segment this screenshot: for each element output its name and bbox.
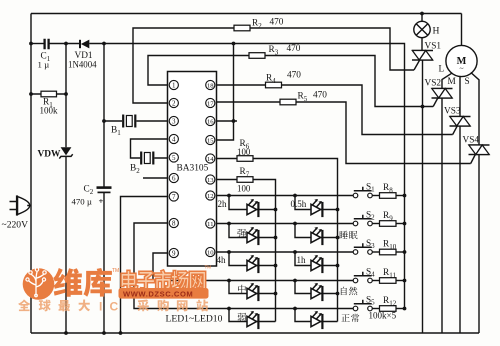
label 睡眠 [340, 231, 348, 239]
LED row 2 right drop [295, 224, 338, 238]
svg-text:3: 3 [172, 117, 176, 125]
LED9 [247, 316, 257, 326]
svg-text:13: 13 [207, 177, 214, 184]
wire pin6 stub [143, 177, 168, 179]
svg-text:15: 15 [207, 137, 214, 144]
resistor R7 100 [217, 179, 238, 181]
switch S5 [353, 306, 358, 311]
capacitor C2 470µ [97, 186, 112, 189]
label 自然 [341, 287, 347, 295]
LED4 [311, 232, 321, 242]
svg-text:H: H [433, 26, 440, 37]
zener diode VDW [61, 147, 72, 155]
svg-text:0.5h: 0.5h [291, 199, 307, 209]
wire motor feed from top border [461, 14, 463, 46]
svg-text:BA3105: BA3105 [177, 164, 209, 174]
svg-text:1h: 1h [297, 255, 307, 265]
node bottom junctions [64, 331, 68, 335]
svg-text:9: 9 [172, 249, 176, 257]
svg-text:470: 470 [287, 44, 301, 54]
LED1 [247, 204, 257, 214]
svg-text:VDW: VDW [38, 150, 62, 160]
label 中 [238, 285, 246, 294]
resistor R12 [372, 308, 379, 310]
svg-text:100k: 100k [40, 106, 59, 116]
svg-text:470: 470 [287, 71, 301, 81]
IC pin numbers 18-10 [206, 80, 215, 89]
svg-text:1N4004: 1N4004 [68, 60, 97, 70]
resistor R4 470 [217, 84, 266, 86]
ceramic resonator B1 [104, 120, 168, 122]
switch S1 [353, 193, 358, 198]
svg-text:11: 11 [207, 221, 214, 228]
svg-text:VS3: VS3 [444, 107, 461, 117]
svg-text:LED1~LED10: LED1~LED10 [166, 314, 223, 325]
LED row 2 left drop [229, 224, 276, 238]
svg-text:12: 12 [207, 193, 214, 200]
LED row 1 right drop [295, 196, 338, 210]
motor M (3-speed) [446, 45, 477, 76]
svg-text:10: 10 [207, 249, 214, 256]
wire pin9 to S4 bus [153, 253, 353, 281]
LED row 4 left drop [229, 281, 276, 294]
wire pin12 S1 bus [217, 195, 354, 197]
wire VS2 cathode down [441, 98, 443, 333]
svg-text:1 µ: 1 µ [38, 60, 50, 70]
wire motor S terminal [471, 73, 479, 146]
svg-text:+: + [99, 196, 104, 206]
svg-text:5: 5 [172, 154, 176, 162]
LED5 [247, 260, 257, 270]
LED row 5 left drop [229, 309, 276, 322]
wire pin1 to R3 line [148, 56, 249, 86]
svg-text:TM: TM [112, 268, 119, 274]
LED row 3 right drop [295, 252, 338, 266]
wire pin11 S2 bus [217, 223, 354, 225]
LED row 5 right drop [295, 309, 338, 322]
wire motor M terminal [459, 76, 461, 116]
svg-text:~220V: ~220V [2, 220, 29, 231]
IC pin numbers 1-9 [169, 80, 178, 89]
op-amp U1 BA3105 IC body [168, 72, 217, 267]
wire VS1 cathode down [422, 60, 424, 333]
LED10 [311, 316, 321, 326]
svg-text:16: 16 [207, 118, 214, 125]
svg-text:VS4: VS4 [463, 136, 480, 146]
svg-text:470 µ: 470 µ [72, 197, 92, 207]
svg-text:7: 7 [172, 193, 176, 201]
svg-text:470: 470 [313, 91, 327, 101]
label 强 [237, 229, 246, 238]
switch S2 [353, 221, 358, 226]
LED2 [311, 204, 321, 214]
wire V+ branch to pins 16,15 [217, 44, 238, 141]
wire pin10 S3 bus [217, 251, 354, 253]
switch S3 [353, 250, 358, 255]
wire pin2 to R2 line [133, 28, 234, 103]
resistor R3 470 [249, 53, 265, 59]
svg-text:6: 6 [172, 174, 176, 182]
ceramic resonator B2 [131, 139, 168, 158]
svg-text:M: M [448, 77, 456, 87]
diode VD1 1N4004 [79, 40, 81, 48]
svg-text:TM: TM [205, 265, 212, 270]
svg-text:VS2: VS2 [425, 79, 442, 89]
LED3 [247, 232, 257, 242]
wire pin8 to S5 bus [134, 223, 353, 309]
LED7 [247, 288, 257, 298]
capacitor C1 [45, 39, 49, 49]
svg-text:8: 8 [172, 219, 176, 227]
AC plug ~220V [18, 197, 30, 215]
resistor R1 100k [31, 93, 66, 95]
svg-text:2: 2 [172, 99, 176, 107]
wire motor L terminal [442, 73, 452, 88]
svg-text:S: S [465, 77, 470, 87]
switch S4 [353, 278, 358, 283]
svg-text:470: 470 [270, 18, 284, 28]
resistor R8 [372, 195, 379, 197]
svg-text:100: 100 [237, 147, 251, 157]
svg-text:1: 1 [172, 81, 176, 89]
svg-text:17: 17 [207, 100, 214, 107]
resistor R6 100 [217, 158, 238, 160]
svg-text:100: 100 [237, 184, 251, 194]
lamp H [421, 14, 423, 22]
wire top border [31, 13, 462, 15]
svg-text:~: ~ [459, 64, 463, 73]
LED row 4 right drop [295, 281, 338, 294]
wire bottom return [31, 332, 479, 334]
svg-text:I: I [99, 300, 102, 314]
wire VD1 output down (V+ filter) [103, 44, 105, 334]
wire pin7 to bottom return [121, 197, 168, 334]
LED row 3 left drop [229, 252, 276, 266]
resistor R9 [372, 223, 379, 225]
wire rectified supply rail to switch bus [31, 43, 44, 45]
resistor R2 470 [234, 25, 250, 31]
resistor R5 470 [217, 101, 281, 103]
node top junction to lamp [420, 12, 424, 16]
LED8 [311, 288, 321, 298]
wire VS3 cathode down [459, 126, 461, 333]
resistor R10 [372, 251, 379, 253]
LED row 1 left drop [229, 196, 276, 210]
svg-text:WWW.DZSC.COM: WWW.DZSC.COM [123, 289, 193, 298]
resistor R11 [372, 280, 379, 282]
wire C1/R1 branch down [65, 44, 67, 334]
svg-text:L: L [439, 65, 445, 75]
label 弱 [238, 313, 247, 322]
svg-text:4h: 4h [217, 255, 227, 265]
svg-text:2h: 2h [218, 199, 228, 209]
svg-text:100k×5: 100k×5 [369, 311, 397, 321]
svg-text:18: 18 [207, 82, 214, 89]
wire VS4 cathode down [478, 155, 480, 334]
watermark: dzsc.com logo & text [18, 265, 211, 314]
LED6 [311, 260, 321, 270]
svg-text:14: 14 [207, 156, 214, 163]
svg-text:4: 4 [172, 135, 176, 143]
wire left border (mains) [30, 14, 32, 334]
label 正常 [341, 314, 349, 322]
svg-text:C: C [110, 300, 119, 314]
